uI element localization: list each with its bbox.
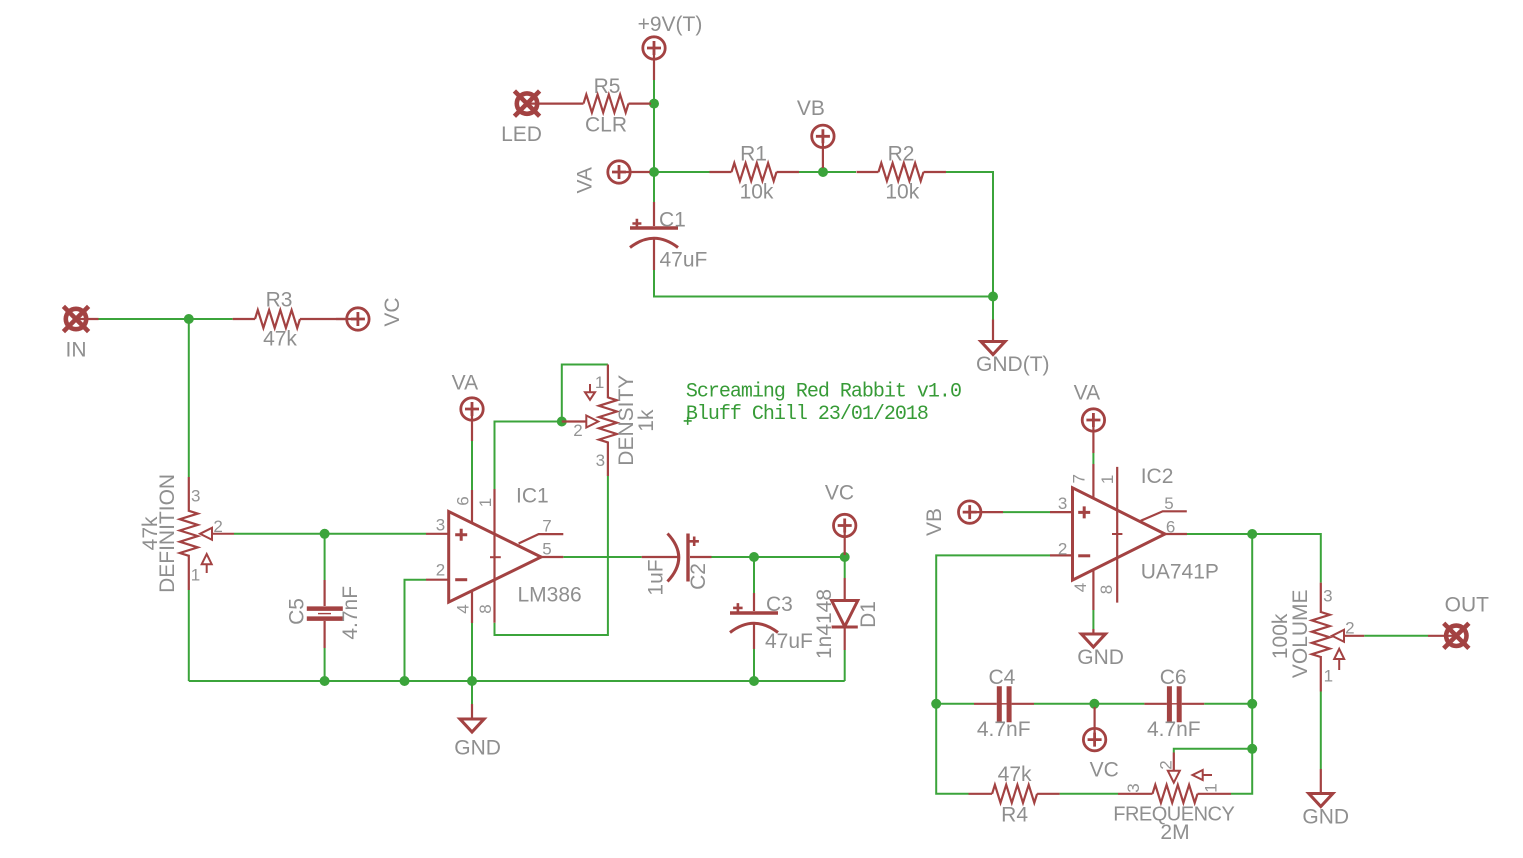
capacitor C6 4.7nF: [1144, 686, 1204, 722]
text origin cross: [684, 417, 692, 425]
wire VA to IC2 pin7: [1092, 453, 1094, 464]
wire C2 to VC/D1 junction: [712, 556, 845, 558]
wiper arrow pin2: [586, 416, 598, 428]
wire net VA vertical from +9V to C1: [654, 80, 993, 320]
junction node IC2 output: [1247, 529, 1257, 539]
svg-text:1: 1: [1324, 667, 1333, 686]
op-amp IC2 UA741P: [1050, 464, 1219, 610]
junction node wiper tap: [1247, 744, 1257, 754]
supply VC at R3: [336, 297, 404, 330]
supply VC at IC1 out: [825, 482, 856, 555]
wire C3 branch: [753, 557, 755, 681]
svg-text:4.7nF: 4.7nF: [977, 718, 1031, 741]
svg-text:47uF: 47uF: [765, 630, 813, 653]
svg-text:1: 1: [476, 498, 495, 507]
svg-text:10k: 10k: [740, 181, 774, 204]
svg-text:C4: C4: [988, 666, 1015, 689]
svg-text:VB: VB: [797, 97, 825, 120]
diode D1 1n4148: [832, 578, 858, 650]
junction node DENSITY wiper: [557, 417, 567, 427]
wire C5 net: [324, 534, 326, 681]
capacitor C2 1uF polarized: [642, 534, 712, 582]
op-amp IC1 LM386: [426, 485, 582, 624]
svg-text:3: 3: [596, 451, 605, 470]
svg-text:IC2: IC2: [1141, 465, 1174, 488]
wire IC1 out to C2: [563, 556, 641, 558]
junction node wiper/C5: [320, 529, 330, 539]
ground GND at IC1: [454, 704, 501, 759]
svg-text:+9V(T): +9V(T): [638, 13, 703, 36]
wire IC2 pin4 to GND: [1092, 610, 1094, 629]
wire IC1 pin4 to GND: [471, 623, 473, 704]
adjustment arrow: [1193, 770, 1203, 780]
resistor R1 10k: [710, 143, 800, 204]
svg-text:4: 4: [1071, 583, 1090, 592]
svg-text:VC: VC: [381, 297, 404, 326]
wire D1 branch: [844, 557, 846, 681]
wire IC1 pin1 loop to DENSITY: [495, 365, 608, 490]
junction node GND(T): [988, 292, 998, 302]
svg-text:10k: 10k: [885, 181, 919, 204]
svg-text:3: 3: [1058, 494, 1067, 513]
svg-text:R2: R2: [888, 143, 915, 166]
junction node C6 right: [1247, 699, 1257, 709]
wiper arrow pin2: [200, 528, 234, 540]
svg-text:3: 3: [1323, 587, 1332, 606]
supply VA left: [574, 161, 651, 194]
wire IC2 out to VOLUME: [1187, 534, 1321, 583]
capacitor C3 47uF polarized: [730, 593, 778, 649]
resistor R4 47k: [969, 763, 1060, 826]
svg-text:Bluff Chill 23/01/2018: Bluff Chill 23/01/2018: [686, 403, 928, 426]
supply VB: [797, 97, 834, 168]
svg-text:R3: R3: [266, 289, 293, 312]
svg-text:C3: C3: [766, 593, 793, 616]
svg-text:VOLUME: VOLUME: [1289, 589, 1312, 678]
wire IC1 pin2 to rail: [405, 580, 427, 681]
wire junction to GND(T): [992, 297, 994, 320]
pin 6: [471, 490, 473, 523]
junction node R5/+9V: [649, 99, 659, 109]
svg-text:3: 3: [436, 515, 445, 534]
svg-text:2: 2: [573, 421, 582, 440]
svg-text:LED: LED: [501, 123, 542, 146]
resistor R3 47k: [233, 289, 348, 351]
svg-text:2: 2: [1345, 619, 1354, 638]
pin 5 output: [541, 556, 563, 558]
junction nodes bottom rail: [320, 676, 330, 686]
junction node VA: [649, 167, 659, 177]
svg-text:OUT: OUT: [1445, 593, 1490, 616]
junction node pin2/C4: [931, 699, 941, 709]
svg-text:C6: C6: [1160, 666, 1187, 689]
svg-text:VB: VB: [923, 508, 946, 536]
wiper arrow pin2 from top: [1173, 753, 1175, 771]
resistor R2 10k: [857, 143, 947, 204]
wiper arrow pin2: [1332, 630, 1344, 642]
wire R1 to R2 through VB junction: [799, 171, 856, 173]
svg-text:GND: GND: [1077, 646, 1124, 669]
svg-text:47k: 47k: [998, 763, 1032, 786]
svg-text:2: 2: [436, 561, 445, 580]
svg-text:R1: R1: [740, 143, 767, 166]
potentiometer DEFINITION 47k: [139, 474, 234, 593]
svg-text:6: 6: [453, 496, 472, 505]
svg-text:GND(T): GND(T): [976, 353, 1049, 376]
wire DENSITY pin3 to IC1 pin8: [495, 476, 608, 635]
svg-text:6: 6: [1166, 517, 1175, 536]
svg-text:3: 3: [191, 487, 200, 506]
svg-text:1: 1: [1098, 475, 1117, 484]
svg-text:DEFINITION: DEFINITION: [156, 474, 179, 593]
svg-text:2M: 2M: [1160, 821, 1189, 844]
svg-text:1: 1: [595, 373, 604, 392]
resistor R5 CLR: [562, 75, 651, 137]
pins 1-8 line: [493, 489, 495, 623]
svg-text:4.7nF: 4.7nF: [339, 586, 362, 640]
svg-text:7: 7: [542, 516, 551, 535]
capacitor C1 47uF polarized: [630, 202, 678, 270]
pad LED: [501, 91, 562, 146]
svg-text:1: 1: [191, 566, 200, 585]
junction node C2/C3: [749, 552, 759, 562]
wire VOLUME pin1 to GND: [1320, 692, 1322, 770]
pin 4: [1092, 569, 1094, 610]
svg-text:5: 5: [542, 540, 551, 559]
junction node IN/R3/pot: [184, 314, 194, 324]
wire FREQUENCY wiper tap: [1174, 749, 1252, 753]
supply VC bottom: [1083, 707, 1118, 782]
junction node VB/R1/R2: [818, 167, 828, 177]
wire IN junction down to pot DEFINITION: [188, 319, 190, 477]
capacitor C4 4.7nF: [974, 686, 1034, 722]
wire C4/C6 row: [936, 703, 1252, 705]
wire junction VA down to C1 top: [653, 172, 655, 202]
svg-text:4.7nF: 4.7nF: [1147, 718, 1201, 741]
svg-text:47k: 47k: [263, 328, 297, 351]
trimmer DENSITY 1k: [562, 365, 658, 477]
svg-text:1k: 1k: [635, 409, 658, 432]
svg-text:R5: R5: [594, 75, 621, 98]
svg-text:1n4148: 1n4148: [813, 589, 836, 659]
wire pot pin1 down to bottom rail: [188, 590, 190, 681]
svg-text:IC1: IC1: [516, 485, 549, 508]
svg-text:VC: VC: [825, 482, 854, 505]
potentiometer VOLUME 100k: [1269, 583, 1364, 692]
svg-text:47uF: 47uF: [660, 249, 708, 272]
svg-text:8: 8: [1097, 585, 1116, 594]
svg-text:D1: D1: [857, 601, 880, 628]
wire IN to R3: [99, 318, 233, 320]
wire VOLUME wiper to OUT: [1364, 635, 1428, 637]
wire VB to IC2 pin3: [1003, 511, 1050, 513]
pin 7: [1092, 464, 1094, 499]
svg-text:IN: IN: [66, 339, 87, 362]
supply VB at IC2: [923, 501, 1003, 536]
capacitor C5 4.7nF: [307, 580, 343, 648]
wire R2 to right corner down to bottom: [946, 172, 993, 297]
svg-text:1uF: 1uF: [645, 559, 668, 595]
svg-text:2: 2: [1058, 539, 1067, 558]
svg-text:C1: C1: [659, 209, 686, 232]
pin 7 stub: [519, 534, 564, 543]
svg-text:VA: VA: [452, 371, 478, 394]
wire VA to IC1 pin6: [471, 441, 473, 490]
pad OUT: [1428, 593, 1489, 648]
svg-text:Screaming Red Rabbit v1.0: Screaming Red Rabbit v1.0: [686, 381, 961, 404]
supply +9V(T): [638, 13, 703, 80]
svg-text:2: 2: [1157, 760, 1176, 769]
pin 6 output: [1165, 533, 1187, 535]
wire output vertical to feedback: [1231, 534, 1252, 794]
svg-text:VA: VA: [574, 167, 597, 193]
svg-text:3: 3: [1124, 783, 1143, 792]
svg-text:5: 5: [1164, 494, 1173, 513]
potentiometer FREQUENCY 2M: [1113, 753, 1234, 844]
wire IC2 pin2 feedback loop left: [936, 555, 1050, 793]
svg-text:7: 7: [1070, 474, 1089, 483]
pin 4: [471, 591, 473, 623]
adjustment arrow: [1334, 649, 1344, 659]
svg-text:4: 4: [453, 604, 472, 613]
ground GND at VOLUME: [1302, 769, 1349, 828]
svg-text:1: 1: [1202, 783, 1221, 792]
wire bottom rail: [189, 680, 845, 682]
svg-text:C5: C5: [286, 598, 309, 625]
junction node VC/D1: [840, 552, 850, 562]
svg-text:R4: R4: [1001, 804, 1028, 827]
junction node C4/C6/VC: [1089, 699, 1099, 709]
pin 5 stub: [1141, 511, 1187, 521]
svg-text:LM386: LM386: [518, 584, 582, 607]
wire bottom return to C1: [654, 270, 993, 297]
svg-text:VA: VA: [1074, 382, 1100, 405]
svg-text:GND: GND: [454, 736, 501, 759]
wire wiper to IC1 pin3: [234, 533, 426, 535]
svg-text:UA741P: UA741P: [1141, 561, 1219, 584]
svg-text:8: 8: [476, 604, 495, 613]
supply VA at IC1: [452, 371, 484, 441]
ground GND(T): [976, 320, 1049, 377]
supply VA at IC2: [1074, 382, 1105, 454]
svg-text:C2: C2: [687, 563, 710, 590]
svg-text:CLR: CLR: [585, 114, 627, 137]
pins 1-8 line: [1116, 467, 1118, 603]
adjustment arrow: [202, 554, 212, 564]
pad IN: [63, 306, 98, 361]
svg-text:GND: GND: [1302, 805, 1349, 828]
ground GND at IC2: [1077, 629, 1124, 669]
adjustment arrow: [585, 392, 595, 400]
svg-text:VC: VC: [1090, 759, 1119, 782]
wire VA junction to R1: [654, 171, 712, 173]
svg-text:2: 2: [213, 517, 222, 536]
wire R4 to FREQUENCY: [1060, 793, 1118, 795]
